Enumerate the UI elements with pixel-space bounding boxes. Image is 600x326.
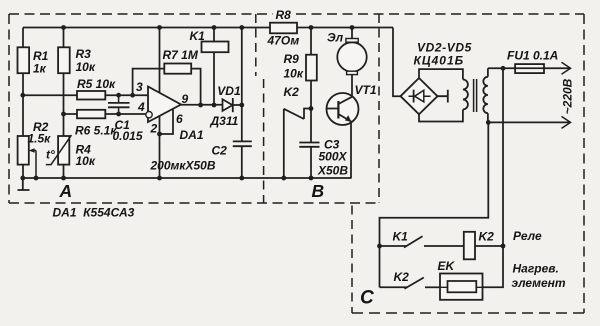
wire bottom ground rail (23, 177, 352, 179)
contact K2 (box B) (284, 85, 312, 178)
capacitor C2 (150, 141, 252, 172)
resistor R9 (284, 28, 317, 179)
svg-text:K2: K2 (394, 270, 410, 284)
svg-text:~220В: ~220В (561, 78, 575, 114)
border box A/B bottom dashed (9, 202, 379, 204)
resistor R1 (18, 47, 49, 75)
svg-text:DA1 К554СА3: DA1 К554СА3 (53, 206, 135, 220)
svg-text:C: C (360, 288, 374, 309)
svg-text:A: A (59, 181, 73, 201)
junction output row at K1 (212, 103, 217, 108)
junction R6 row at R3 column (61, 112, 66, 117)
border box C bottom dashed (352, 312, 584, 314)
relay coil K2 (464, 230, 494, 260)
svg-text:VT1: VT1 (355, 83, 377, 97)
svg-text:R3: R3 (76, 47, 92, 61)
resistor R8 (267, 8, 300, 48)
border box A/B divider dashed upper (255, 14, 257, 76)
svg-text:10к: 10к (284, 67, 304, 81)
wire left column from transformer bottom down to contacts (380, 122, 489, 287)
junction ground rail at K2 contact (281, 176, 286, 181)
wire op-amp output row (181, 104, 223, 106)
transistor VT1 (327, 83, 377, 178)
svg-text:B: B (312, 181, 325, 201)
svg-text:КЦ401Б: КЦ401Б (414, 54, 465, 68)
junction R5 row at R7 (130, 93, 135, 98)
wire mains lower row (488, 121, 570, 123)
svg-text:Х50В: Х50В (317, 164, 348, 178)
svg-text:VD1: VD1 (217, 84, 241, 98)
junction ground rail at C3 (309, 176, 314, 181)
svg-text:t°: t° (46, 148, 55, 162)
svg-text:Реле: Реле (513, 229, 542, 243)
junction ground rail at C2 (239, 176, 244, 181)
svg-text:4: 4 (137, 100, 145, 114)
relay coil K1 (190, 28, 229, 106)
svg-text:C2: C2 (212, 144, 228, 158)
heating element EK (425, 259, 483, 300)
svg-text:R9: R9 (284, 52, 300, 66)
svg-text:Нагрев.: Нагрев. (513, 262, 559, 276)
svg-text:10к: 10к (76, 154, 96, 168)
capacitor C3 (299, 138, 348, 178)
capacitor C1 (108, 95, 143, 143)
resistor R6 (75, 110, 117, 138)
wire R1/R2 column (22, 28, 24, 179)
svg-text:EK: EK (438, 259, 456, 273)
svg-text:K2: K2 (479, 230, 495, 244)
junction output row at R7 (198, 103, 203, 108)
potentiometer R2 (18, 120, 52, 178)
svg-text:K1: K1 (393, 230, 409, 244)
ground (18, 178, 30, 190)
motor Эл (327, 28, 367, 97)
junction R6 row at C1 (116, 112, 121, 117)
svg-text:FU1 0.1A: FU1 0.1A (507, 49, 558, 63)
svg-text:R7 1М: R7 1М (163, 48, 199, 62)
junction ground rail at R2 (20, 176, 25, 181)
svg-text:R5 10к: R5 10к (77, 77, 116, 91)
wire VD1/C2 column (241, 28, 243, 179)
junction relay row right (501, 244, 506, 249)
border box C right dashed (583, 14, 585, 313)
border box C lower-left dashed (351, 206, 353, 314)
svg-text:6: 6 (176, 112, 183, 126)
contact K1 (box C) (380, 230, 423, 248)
svg-text:0.015: 0.015 (113, 129, 143, 143)
diode VD1 (210, 84, 242, 128)
svg-text:47Ом: 47Ом (267, 34, 300, 48)
border box A/B top dashed (left of R8 label gap) (9, 13, 273, 15)
thermistor R4 (46, 135, 96, 168)
junction top rail at R9 (309, 25, 314, 30)
wire right column from fuse node down to relay circuit (483, 68, 504, 287)
junction relay row left (377, 244, 382, 249)
svg-text:K1: K1 (190, 29, 206, 43)
svg-text:Д311: Д311 (210, 114, 239, 128)
svg-text:2: 2 (150, 122, 158, 136)
resistor R5 (77, 77, 116, 100)
junction R5 row at R1 column (20, 93, 25, 98)
wire R6 row to op-amp pin 4 (64, 113, 146, 115)
bridge rectifier VD2-VD5 (401, 41, 472, 115)
junction fuse node (501, 66, 506, 71)
junction top rail at VD1 column (239, 25, 244, 30)
wire R5 row to op-amp pin 3 (23, 94, 148, 96)
svg-text:3: 3 (136, 80, 143, 94)
svg-text:VD2-VD5: VD2-VD5 (417, 41, 472, 55)
svg-text:200мкХ50В: 200мкХ50В (150, 159, 216, 173)
junction VT1 base node (309, 106, 314, 111)
junction ground rail at R4 (61, 176, 66, 181)
wire fuse row (488, 67, 571, 69)
svg-text:10к: 10к (76, 60, 96, 74)
svg-text:1.5к: 1.5к (28, 132, 52, 146)
svg-text:Эл: Эл (327, 31, 344, 45)
svg-text:500Х: 500Х (319, 150, 348, 164)
junction top rail at op-amp power (157, 25, 162, 30)
wire top supply rail (23, 27, 393, 29)
svg-text:R6 5.1к: R6 5.1к (75, 124, 117, 138)
junction R5 row at C1 (116, 93, 121, 98)
border top dashed (right of R8 label gap to C right corner) (296, 13, 584, 15)
arrow mains upper (562, 62, 571, 74)
svg-text:элемент: элемент (512, 276, 566, 290)
op-amp DA1 (136, 28, 204, 179)
svg-text:R8: R8 (276, 8, 292, 22)
border box A left dashed (8, 14, 10, 203)
border box A/B divider dashed lower (263, 79, 265, 203)
junction op-amp pins 2,6 (157, 132, 162, 137)
junction top rail at motor (350, 25, 355, 30)
wire K1 to K2 coil (424, 245, 503, 247)
contact K2 (box C) (380, 270, 424, 289)
junction transformer bottom node (486, 120, 491, 125)
svg-text:1к: 1к (33, 62, 47, 76)
border box B right dashed (378, 14, 380, 203)
wire supply to bridge (393, 28, 401, 97)
svg-text:DA1: DA1 (180, 128, 204, 142)
fuse FU1 (507, 49, 558, 74)
junction ground rail at R2 wiper (34, 176, 39, 181)
resistor R3 (58, 47, 96, 74)
transformer T1 (419, 68, 488, 122)
svg-text:K2: K2 (284, 85, 300, 99)
junction ground rail at op-amp (157, 176, 162, 181)
junction output row at VD1 cathode (239, 103, 244, 108)
junction top rail at R3 (61, 25, 66, 30)
junction top rail at K1 (212, 25, 217, 30)
wire R3/R4 column (63, 28, 65, 179)
arrow mains lower (562, 116, 571, 128)
svg-text:9: 9 (182, 92, 189, 106)
resistor R7 (133, 48, 201, 105)
